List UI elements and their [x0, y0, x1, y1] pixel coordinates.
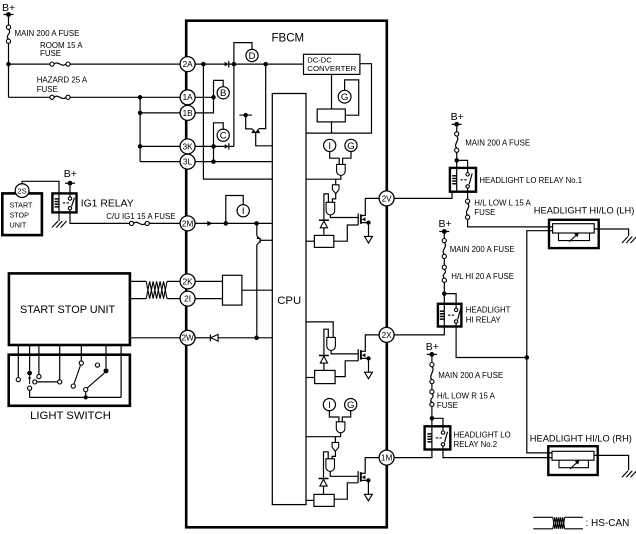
svg-text:RELAY No.2: RELAY No.2: [454, 440, 497, 449]
svg-text:B: B: [220, 88, 226, 99]
svg-text:HEADLIGHT HI/LO (LH): HEADLIGHT HI/LO (LH): [534, 206, 635, 216]
svg-text:MAIN 200 A FUSE: MAIN 200 A FUSE: [450, 245, 515, 254]
svg-text:C/U IG1 15 A FUSE: C/U IG1 15 A FUSE: [106, 212, 175, 221]
svg-text:G: G: [341, 92, 348, 103]
svg-text:DC-DC: DC-DC: [307, 55, 332, 64]
svg-text:2A: 2A: [183, 60, 194, 69]
svg-text:LIGHT SWITCH: LIGHT SWITCH: [30, 410, 111, 422]
svg-text:HEADLIGHT LO: HEADLIGHT LO: [454, 430, 511, 439]
svg-text:D: D: [249, 51, 256, 62]
svg-text:1M: 1M: [381, 454, 393, 463]
svg-text:1A: 1A: [183, 93, 194, 102]
svg-text:H/L HI 20 A FUSE: H/L HI 20 A FUSE: [451, 272, 514, 281]
svg-text:HEADLIGHT: HEADLIGHT: [466, 306, 511, 315]
svg-text:FBCM: FBCM: [272, 33, 305, 45]
svg-text:3L: 3L: [183, 158, 193, 167]
svg-text:HI RELAY: HI RELAY: [466, 315, 502, 324]
svg-text:B+: B+: [64, 168, 77, 180]
svg-text:MAIN 200 A FUSE: MAIN 200 A FUSE: [465, 138, 530, 147]
svg-text:CPU: CPU: [277, 295, 301, 307]
svg-text:2V: 2V: [382, 194, 393, 203]
svg-text:UNIT: UNIT: [10, 220, 27, 229]
svg-text:FUSE: FUSE: [40, 49, 61, 58]
svg-text:C: C: [220, 131, 227, 142]
svg-text:1B: 1B: [183, 109, 194, 118]
svg-text:I: I: [328, 400, 331, 411]
svg-text:3K: 3K: [183, 142, 194, 151]
svg-text:START STOP UNIT: START STOP UNIT: [20, 304, 116, 316]
svg-text:G: G: [347, 141, 354, 152]
svg-text:2S: 2S: [18, 186, 27, 195]
svg-text:MAIN 200 A FUSE: MAIN 200 A FUSE: [438, 371, 503, 380]
svg-text:2K: 2K: [183, 277, 194, 286]
svg-text:IG1 RELAY: IG1 RELAY: [81, 199, 134, 210]
svg-text:2M: 2M: [182, 219, 194, 228]
svg-text:START: START: [10, 201, 34, 210]
svg-text:2I: 2I: [184, 295, 191, 304]
svg-text:HEADLIGHT LO RELAY No.1: HEADLIGHT LO RELAY No.1: [479, 176, 582, 185]
svg-text:: HS-CAN: : HS-CAN: [586, 518, 630, 529]
svg-text:B+: B+: [451, 111, 464, 123]
svg-text:MAIN 200 A FUSE: MAIN 200 A FUSE: [15, 29, 80, 38]
svg-text:CONVERTER: CONVERTER: [307, 64, 357, 73]
svg-text:2W: 2W: [181, 334, 194, 343]
svg-text:2X: 2X: [382, 331, 393, 340]
svg-text:B+: B+: [439, 218, 452, 230]
svg-text:HEADLIGHT HI/LO (RH): HEADLIGHT HI/LO (RH): [530, 434, 632, 444]
svg-text:I: I: [242, 206, 245, 217]
svg-text:H/L LOW L 15 A: H/L LOW L 15 A: [474, 198, 531, 207]
svg-text:FUSE: FUSE: [474, 208, 495, 217]
svg-text:FUSE: FUSE: [437, 401, 458, 410]
svg-text:STOP: STOP: [10, 211, 30, 220]
svg-text:I: I: [328, 141, 331, 152]
svg-text:FUSE: FUSE: [37, 85, 58, 94]
svg-text:H/L LOW R 15 A: H/L LOW R 15 A: [437, 391, 496, 400]
svg-text:G: G: [347, 400, 354, 411]
svg-text:B+: B+: [426, 341, 439, 353]
svg-text:HAZARD 25 A: HAZARD 25 A: [37, 76, 88, 85]
